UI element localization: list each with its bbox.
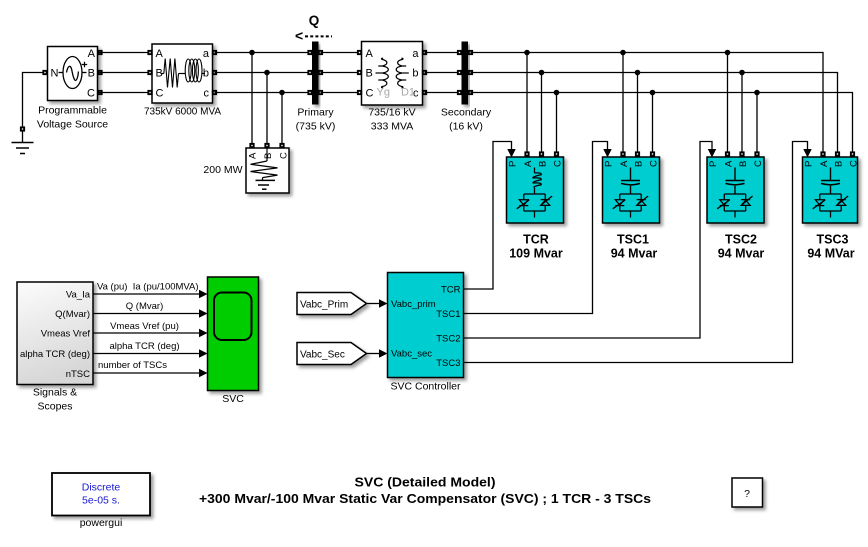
TSC3 top ports A B C	[820, 151, 825, 156]
TSC3 block	[803, 157, 860, 223]
svg-text:nTSC: nTSC	[66, 369, 90, 380]
wires down to load	[252, 53, 282, 144]
powergui block	[52, 473, 150, 516]
P wire TSC1 from controller	[464, 142, 608, 314]
svg-text:94 Mvar: 94 Mvar	[718, 247, 765, 261]
wires transformer to secondary bus	[425, 53, 460, 93]
svg-text:B: B	[834, 161, 845, 167]
TSC1 block	[603, 157, 660, 223]
svg-text:P: P	[508, 161, 519, 167]
P wire TSC3 from controller	[464, 142, 808, 363]
svg-text:A: A	[724, 160, 735, 167]
P port arrow TSC1	[603, 149, 611, 158]
svg-text:powergui: powergui	[80, 517, 123, 529]
svg-text:B: B	[366, 68, 373, 80]
svg-text:C: C	[366, 88, 374, 100]
svg-text:c: c	[204, 88, 210, 100]
svg-text:Secondary: Secondary	[441, 107, 492, 119]
svg-text:C: C	[649, 160, 660, 167]
svg-text:109 Mvar: 109 Mvar	[509, 247, 563, 261]
svg-text:TSC2: TSC2	[725, 233, 757, 247]
secondary phase C wire	[471, 93, 853, 152]
capacitor C TSC2	[726, 168, 745, 195]
TSC2 phase drops	[728, 53, 758, 152]
svg-text:C: C	[87, 87, 95, 99]
svg-text:B: B	[538, 161, 549, 167]
svg-text:200 MW: 200 MW	[203, 164, 242, 176]
svg-text:TCR: TCR	[523, 233, 549, 247]
svg-text:a: a	[412, 48, 419, 60]
svg-text:C: C	[279, 152, 290, 159]
wire Vabc_Prim to controller	[367, 303, 380, 305]
P port arrow TSC2	[708, 149, 716, 158]
help block	[732, 478, 763, 507]
junction dots TSC2 taps	[725, 50, 731, 56]
SVC Controller block	[388, 273, 464, 378]
TCR block	[507, 157, 564, 223]
svg-text:Q (Mvar): Q (Mvar)	[126, 301, 163, 312]
svg-text:Q: Q	[309, 13, 320, 28]
svg-text:alpha TCR (deg): alpha TCR (deg)	[20, 349, 90, 360]
svg-text:A: A	[819, 160, 830, 167]
TSC1 phase drops	[623, 53, 653, 152]
scope input arrowheads	[199, 290, 208, 298]
svg-text:SVC (Detailed Model): SVC (Detailed Model)	[355, 476, 496, 490]
svg-text:B: B	[88, 68, 95, 80]
svg-text:Yg: Yg	[377, 87, 390, 99]
controller input arrow 2	[379, 349, 388, 357]
svg-text:Vmeas Vref (pu): Vmeas Vref (pu)	[110, 321, 179, 332]
svg-text:P: P	[804, 161, 815, 167]
svg-text:A: A	[366, 48, 374, 60]
junction dots TSC1 taps	[620, 50, 626, 56]
svg-text:?: ?	[744, 488, 750, 500]
svg-text:5e-05 s.: 5e-05 s.	[82, 495, 120, 507]
inductor L TCR	[533, 168, 541, 195]
svg-text:735kV 6000 MVA: 735kV 6000 MVA	[144, 107, 221, 118]
P wire TCR from controller	[464, 142, 512, 290]
svg-text:b: b	[412, 68, 418, 80]
TSC2 block	[707, 157, 764, 223]
svg-text:C: C	[156, 88, 164, 100]
impedance block 735kV 6000 MVA	[152, 44, 213, 103]
svg-text:333 MVA: 333 MVA	[371, 121, 413, 133]
svg-text:(735 kV): (735 kV)	[296, 121, 336, 133]
svg-text:94 MVar: 94 MVar	[807, 247, 854, 261]
svg-text:Programmable: Programmable	[38, 105, 107, 117]
Signals & Scopes block	[17, 282, 93, 385]
TCR phase drops	[527, 53, 557, 152]
TSC1 top ports A B C	[620, 151, 625, 156]
wires source to impedance	[98, 53, 153, 93]
svg-text:94 Mvar: 94 Mvar	[611, 247, 658, 261]
svg-text:A: A	[523, 160, 534, 167]
TSC2 top ports A B C	[725, 151, 730, 156]
P port arrow TSC3	[803, 149, 811, 158]
svg-text:P: P	[708, 161, 719, 167]
capacitor C TSC1	[621, 168, 640, 195]
svg-text:Vmeas Vref: Vmeas Vref	[41, 329, 91, 340]
TCR top ports A B C	[524, 151, 529, 156]
svg-text:Vabc_prim: Vabc_prim	[391, 299, 436, 310]
svg-text:A: A	[248, 152, 259, 159]
svg-text:Vabc_sec: Vabc_sec	[391, 349, 432, 360]
svg-text:TSC2: TSC2	[436, 334, 460, 345]
svg-text:A: A	[156, 48, 164, 60]
Vabc_Sec tag	[297, 343, 367, 365]
svg-text:TSC3: TSC3	[817, 233, 849, 247]
wires impedance to primary bus	[215, 53, 311, 93]
svg-text:number of TSCs: number of TSCs	[98, 360, 167, 371]
source block Programmable Voltage Source	[48, 47, 98, 101]
svg-text:Voltage Source: Voltage Source	[37, 119, 108, 131]
Q dashed arrow	[295, 28, 332, 44]
svg-text:P: P	[604, 161, 615, 167]
impedance ports	[147, 50, 152, 55]
svg-text:Q(Mvar): Q(Mvar)	[55, 309, 90, 320]
svg-text:TSC3: TSC3	[436, 358, 460, 369]
wires primary bus to transformer	[321, 53, 360, 93]
P wire TSC2 from controller	[464, 142, 713, 339]
svg-text:TSC1: TSC1	[436, 309, 460, 320]
scope wires	[93, 294, 200, 373]
svg-text:C: C	[753, 160, 764, 167]
thyristor pair TCR	[517, 194, 552, 218]
transformer ports	[357, 50, 362, 55]
junction dots TCR taps	[524, 50, 530, 56]
secondary phase B wire	[471, 73, 838, 152]
thyristor pair TSC1	[613, 194, 648, 218]
svg-text:A: A	[88, 48, 96, 60]
svg-text:Vabc_Prim: Vabc_Prim	[300, 300, 348, 311]
junction dots to load	[249, 50, 255, 56]
capacitor C TSC3	[821, 168, 840, 195]
wire N to ground	[23, 73, 48, 127]
secondary bus	[462, 42, 469, 105]
svg-text:Scopes: Scopes	[37, 401, 72, 413]
svg-text:TCR: TCR	[441, 285, 461, 296]
ground port	[20, 126, 25, 131]
primary bus	[312, 42, 319, 105]
svg-text:Va_Ia: Va_Ia	[66, 290, 91, 301]
svg-text:TSC1: TSC1	[617, 233, 649, 247]
source ports	[42, 70, 47, 75]
svg-text:N: N	[51, 68, 59, 80]
svg-text:C: C	[553, 160, 564, 167]
P port arrow TCR	[507, 149, 515, 158]
svg-text:735/16 kV: 735/16 kV	[368, 107, 415, 119]
svg-text:Primary: Primary	[297, 107, 334, 119]
load block 200 MW	[246, 148, 290, 193]
thyristor pair TSC3	[813, 194, 848, 218]
svg-text:alpha TCR (deg): alpha TCR (deg)	[109, 341, 179, 352]
svg-text:B: B	[738, 161, 749, 167]
svg-text:B: B	[634, 161, 645, 167]
svg-text:B: B	[263, 153, 274, 159]
svg-text:SVC: SVC	[222, 393, 244, 405]
svg-text:Vabc_Sec: Vabc_Sec	[300, 350, 345, 361]
ground	[12, 132, 34, 154]
svg-text:Signals &: Signals &	[33, 387, 77, 399]
Vabc_Prim tag	[297, 293, 367, 315]
svg-text:C: C	[849, 160, 860, 167]
thyristor pair TSC2	[717, 194, 752, 218]
svg-text:<: <	[295, 28, 303, 44]
wire Vabc_Sec to controller	[367, 353, 380, 355]
svg-text:D1: D1	[401, 87, 415, 99]
svg-text:Discrete: Discrete	[82, 482, 121, 494]
svg-text:A: A	[619, 160, 630, 167]
svg-text:+300 Mvar/-100 Mvar Static Var: +300 Mvar/-100 Mvar Static Var Compensat…	[199, 492, 651, 506]
svg-text:a: a	[203, 48, 210, 60]
transformer block 735/16 kV	[362, 42, 423, 106]
SVC scope block	[208, 277, 259, 391]
controller input arrow 1	[379, 299, 388, 307]
svg-text:(16 kV): (16 kV)	[449, 121, 483, 133]
svg-text:SVC Controller: SVC Controller	[390, 381, 461, 393]
secondary phase A wire	[471, 53, 824, 152]
svg-text:Va (pu) Ia (pu/100MVA): Va (pu) Ia (pu/100MVA)	[97, 282, 199, 293]
